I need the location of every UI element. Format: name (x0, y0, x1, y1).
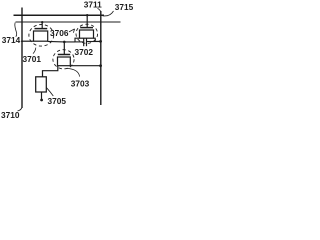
node: terminal dot (40, 99, 43, 102)
capacitor C: left plate (83, 38, 85, 46)
svg-text:3710: 3710 (1, 110, 20, 120)
transistor Q3702: gate lead (86, 15, 88, 28)
transistor Q3703: gate lead (63, 42, 65, 55)
node: junction dot N / 3703 gate (63, 41, 66, 44)
wire: node N from 3701 drain to 3703 gate junction and 3702 source (48, 40, 75, 43)
transistor Q3702: dashed ellipse (76, 24, 98, 43)
transistor Q3703: gate bar (58, 54, 70, 56)
svg-text:3715: 3715 (115, 2, 134, 12)
transistor Q3703: dashed ellipse (53, 50, 74, 69)
wire: 3702 source step-down to node N (75, 38, 80, 42)
node: junction dot at power line (99, 40, 102, 43)
wire: EL element cathode lead (41, 92, 43, 99)
wire: source signal line 3710 (left vertical) (21, 8, 23, 109)
wire: current supply line 3711 (right vertical) (100, 11, 102, 105)
capacitor C: right plate (86, 38, 88, 46)
wire: first scan line 3714 (lower horizontal) (16, 21, 121, 23)
svg-text:3701: 3701 (23, 54, 42, 64)
transistor Q3701: gate lead (41, 22, 43, 29)
wire: 3701 source to signal line (22, 40, 34, 42)
wire: 3702 drain to power line (94, 38, 101, 41)
node: junction dot at power line bottom (99, 64, 102, 67)
leader line for 3711 (98, 8, 101, 11)
leader line for 3714 (15, 23, 17, 37)
transistor Q3702: gate bar (80, 27, 93, 29)
wire: second scan line 3715 (upper horizontal) (14, 14, 105, 16)
svg-text:3705: 3705 (48, 96, 67, 106)
transistor Q3701: channel body rectangle (34, 31, 48, 41)
wire: 3703 drain to power line (70, 65, 101, 67)
wire: 3703 source down-left to EL element (43, 66, 58, 77)
svg-text:3703: 3703 (71, 79, 90, 89)
leader line for 3705 (46, 87, 53, 96)
node: junction dot gate3701/3714 (41, 21, 43, 23)
transistor Q3702: channel body rectangle (80, 30, 94, 38)
leader line for 3715 (103, 11, 114, 16)
leader line for 3703 (67, 68, 80, 76)
transistor Q3701: gate bar (35, 28, 48, 30)
leader line for 3701 (33, 48, 36, 54)
node: dot at signal line (21, 40, 23, 42)
wire: capacitor to power line (87, 41, 101, 43)
transistor Q3703: channel body rectangle (58, 57, 71, 66)
svg-text:3714: 3714 (2, 35, 21, 45)
wire: node N to capacitor left plate (75, 41, 83, 43)
leader line for 3710 (18, 107, 23, 111)
svg-text:3711: 3711 (84, 0, 102, 10)
svg-text:3702: 3702 (75, 47, 94, 57)
EL element 3705: box (36, 77, 47, 92)
node: junction dot gate3702/3715 (86, 14, 88, 16)
transistor Q3701: dashed ellipse (29, 25, 54, 47)
svg-text:3706: 3706 (50, 28, 69, 38)
leader line for 3706 (arrow) (69, 29, 75, 33)
